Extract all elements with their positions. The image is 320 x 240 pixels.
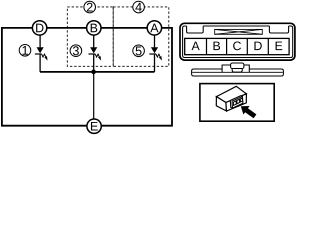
relay body right face — [226, 94, 247, 111]
cavity label E — [276, 42, 283, 51]
latch lip cup — [232, 69, 242, 73]
relay pin block — [230, 96, 243, 108]
terminal B — [87, 21, 101, 35]
cavity label A — [191, 42, 199, 51]
junction node — [91, 70, 96, 75]
pin number 1 — [19, 45, 31, 57]
connector key crossed box — [215, 29, 263, 34]
relay body left face — [216, 97, 226, 111]
terminal A — [147, 21, 161, 35]
cavity label B — [213, 42, 220, 51]
arrow pointer — [241, 106, 257, 118]
pin number 2 — [84, 1, 96, 13]
cavity label D — [254, 42, 261, 51]
relay frame — [200, 84, 274, 122]
wire top rail D-B — [47, 27, 87, 29]
relay body top face — [216, 86, 246, 102]
flange inner lip — [192, 71, 283, 73]
dashed coil box 2 — [67, 7, 113, 66]
wire left rail D to E — [2, 28, 87, 126]
dashed coil box 4 — [113, 7, 169, 66]
relay contact 5 (A branch) — [149, 35, 162, 72]
pin number 3 — [70, 45, 82, 57]
connector inner outline with keyway notches — [183, 26, 293, 58]
latch button — [231, 63, 244, 69]
wire stem to E — [93, 72, 95, 119]
pin number 4 — [133, 1, 145, 13]
wire top rail B-A — [101, 27, 147, 29]
terminal E — [87, 119, 101, 133]
wire mid bus — [40, 71, 155, 73]
latch housing sides — [222, 65, 249, 72]
relay contact 3 (B branch) — [89, 35, 102, 72]
cavity label C — [233, 41, 241, 50]
wire right rail A to E — [101, 28, 172, 126]
cavity row frame — [185, 38, 289, 54]
cavity dividers — [207, 38, 269, 54]
connector flange — [192, 69, 284, 76]
terminal D — [32, 21, 46, 35]
relay contact 1 (D branch) — [35, 35, 48, 72]
pin number 5 — [133, 45, 145, 57]
connector outer body — [180, 23, 295, 60]
